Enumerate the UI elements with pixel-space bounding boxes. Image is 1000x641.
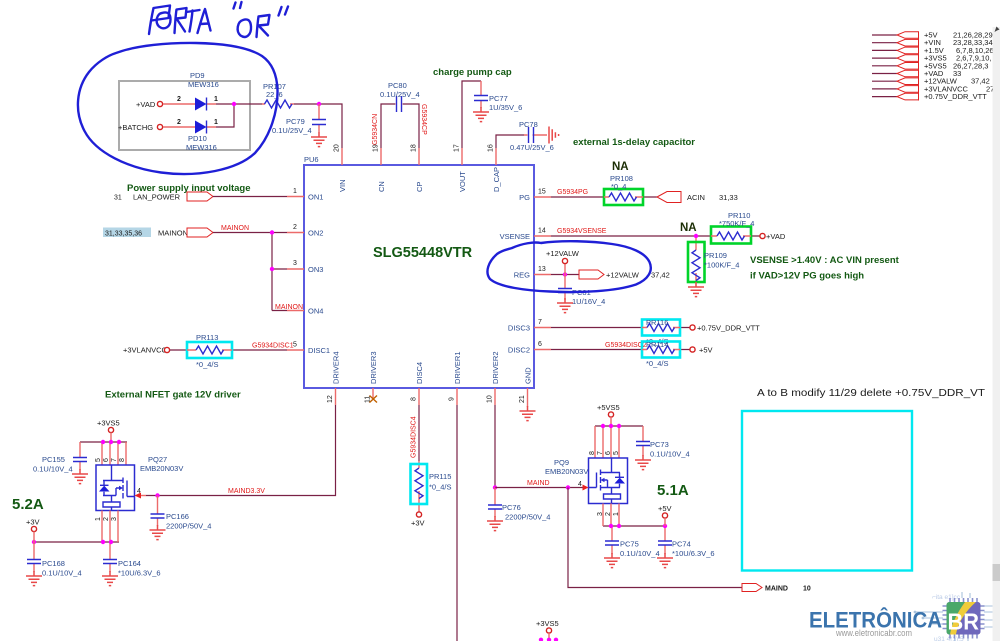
svg-text:EMB20N03V: EMB20N03V [140, 464, 183, 473]
chip left pin names [308, 193, 330, 356]
wire DRIVER2 down to MAIND [494, 405, 496, 488]
logo decorative glyphs [932, 594, 964, 641]
logo url [835, 628, 912, 638]
wire DISC1 row [170, 349, 287, 351]
svg-text:0.1U/25V_4: 0.1U/25V_4 [272, 126, 312, 135]
capacitor PC79 [272, 104, 326, 135]
svg-text:G5934CP: G5934CP [420, 104, 427, 135]
svg-text:PG: PG [519, 193, 530, 202]
svg-text:if VAD>12V PG goes high: if VAD>12V PG goes high [750, 271, 864, 282]
svg-text:CP: CP [415, 182, 424, 192]
svg-text:*750K/F_4: *750K/F_4 [719, 219, 754, 228]
svg-text:ON1: ON1 [308, 193, 323, 202]
port MAINON [187, 228, 213, 237]
logo chip BR [943, 598, 985, 639]
wire PQ27 bottom bus [34, 511, 119, 560]
node ACIN page ref [687, 193, 738, 202]
resistor PR109 in green box [688, 238, 739, 282]
svg-text:ON2: ON2 [308, 229, 323, 238]
junctions PQ27 top bus [101, 440, 121, 444]
svg-text:20: 20 [334, 144, 341, 152]
annotation Power supply input voltage [127, 183, 251, 194]
chip left pin stubs [287, 197, 304, 351]
svg-text:G5934DISC2: G5934DISC2 [605, 342, 647, 349]
net label G5934DISC1 [252, 343, 294, 350]
cyan highlight rectangle [742, 411, 912, 571]
chip top pin stubs [342, 148, 496, 165]
svg-text:*10U/6.3V_6: *10U/6.3V_6 [118, 569, 161, 578]
handdrawn ellipse around OR circuit [78, 43, 278, 174]
svg-text:22_6: 22_6 [266, 90, 283, 99]
svg-text:+12VALW: +12VALW [546, 249, 580, 258]
wire DISC2 row [551, 349, 690, 351]
svg-text:6: 6 [538, 341, 542, 348]
svg-text:MAINON: MAINON [275, 304, 303, 311]
handdrawn blob around REG [487, 241, 650, 292]
svg-text:PC164: PC164 [118, 559, 141, 568]
svg-text:0.1U/10V_4: 0.1U/10V_4 [33, 465, 73, 474]
ground below PC164 [102, 571, 118, 586]
annotation NA above PR108 [612, 161, 629, 173]
logo wordmark ELETRONICA [809, 608, 942, 633]
svg-text:6: 6 [103, 458, 110, 462]
handwritten PORTA OR [149, 2, 288, 37]
transistor PQ27 EMB20N03V [95, 455, 183, 521]
ground below PC166 [150, 525, 166, 540]
svg-text:⌐ita e1]cc: ⌐ita e1]cc [932, 594, 961, 601]
svg-text:EMB20N03V: EMB20N03V [545, 467, 588, 476]
svg-text:8: 8 [411, 397, 418, 401]
net label MAINON [221, 225, 249, 232]
wire PG row [551, 196, 657, 198]
svg-text:0.1U/10V_4: 0.1U/10V_4 [620, 549, 660, 558]
svg-text:5.1A: 5.1A [657, 482, 689, 499]
svg-text:*10U/6.3V_6: *10U/6.3V_6 [672, 549, 715, 558]
no-connect X on pin 11 [370, 396, 378, 403]
annotation external 1s-delay capacitor [573, 137, 695, 148]
svg-text:16: 16 [488, 144, 495, 152]
junctions bottom edge [539, 638, 558, 641]
svg-text:*0_4/S: *0_4/S [429, 483, 452, 492]
svg-text:+3VS5: +3VS5 [536, 619, 559, 628]
wire ON2 with branch to ON3 ON4 [213, 233, 287, 311]
node +BATCHG input [118, 123, 163, 132]
ground below PC77 [473, 107, 489, 122]
node +3VLANVCC [123, 346, 170, 355]
wire PQ9 top bus [595, 426, 643, 458]
svg-text:2200P/50V_4: 2200P/50V_4 [505, 513, 550, 522]
svg-text:17: 17 [454, 144, 461, 152]
svg-text:G5934DISC1: G5934DISC1 [252, 343, 294, 350]
wire ON1 [213, 196, 287, 198]
svg-text:12: 12 [327, 395, 334, 403]
junction VSENSE divider [694, 234, 698, 238]
ground below PC79 [311, 132, 327, 147]
svg-text:3: 3 [293, 260, 297, 267]
svg-text:MAINON: MAINON [158, 229, 188, 238]
svg-text:0.47U/25V_6: 0.47U/25V_6 [510, 143, 554, 152]
svg-text:PQ27: PQ27 [148, 455, 167, 464]
svg-text:+3VS5: +3VS5 [97, 419, 120, 428]
svg-text:G5934CN: G5934CN [372, 114, 379, 145]
resistor PR114 in cyan box [642, 340, 680, 368]
svg-text:MEW316: MEW316 [188, 80, 219, 89]
svg-text:1: 1 [293, 188, 297, 195]
node +5V above PC74 [658, 504, 672, 526]
svg-text:*0_4: *0_4 [611, 182, 626, 191]
svg-text:VSENSE: VSENSE [500, 232, 530, 241]
svg-text:0.1U/10V_4: 0.1U/10V_4 [650, 450, 690, 459]
svg-text:+5V: +5V [658, 504, 672, 513]
svg-text:PQ9: PQ9 [554, 458, 569, 467]
svg-text:1: 1 [95, 517, 102, 521]
svg-text:MAIND3.3V: MAIND3.3V [228, 488, 265, 495]
capacitor PC80 [380, 81, 420, 112]
svg-text:PC74: PC74 [672, 540, 691, 549]
svg-text:+12VALW: +12VALW [606, 271, 640, 280]
chip top pin numbers [334, 144, 495, 152]
svg-text:13: 13 [538, 266, 546, 273]
capacitor PC75 [605, 540, 660, 559]
junction MAIND at DRIVER2 [493, 485, 497, 489]
gray box around OR diodes [119, 81, 250, 150]
svg-text:PC78: PC78 [519, 120, 538, 129]
wire DISC4 down [418, 405, 420, 461]
svg-text:+0.75V_DDR_VTT: +0.75V_DDR_VTT [697, 324, 760, 333]
node +3V left [26, 518, 40, 543]
svg-text:PR109: PR109 [704, 251, 727, 260]
junction ON2 branch [270, 230, 274, 234]
svg-text:3: 3 [111, 517, 118, 521]
svg-text:VSENSE >1.40V : AC VIN present: VSENSE >1.40V : AC VIN present [750, 255, 900, 266]
port ACIN [657, 192, 681, 203]
svg-text:PR115: PR115 [429, 472, 451, 481]
power connector net names [924, 31, 999, 102]
scrollbar track [993, 27, 1000, 641]
svg-text:1U/35V_6: 1U/35V_6 [489, 103, 522, 112]
resistor PR110 in green box [711, 211, 754, 244]
svg-text:7: 7 [597, 451, 604, 455]
ground right of PC78 [549, 127, 559, 144]
svg-text:VIN: VIN [338, 179, 347, 192]
svg-text:+3VLANVCC: +3VLANVCC [123, 346, 168, 355]
svg-text:+5V: +5V [699, 346, 713, 355]
svg-text:MEW316: MEW316 [186, 143, 217, 152]
net label G5934DISC2 [605, 342, 647, 349]
svg-text:PU6: PU6 [304, 155, 319, 164]
wire diode outputs to junction [216, 104, 262, 127]
ground below PC168 [26, 571, 42, 586]
svg-text:VOUT: VOUT [458, 171, 467, 192]
svg-text:2: 2 [293, 224, 297, 231]
svg-text:DRIVER3: DRIVER3 [369, 351, 378, 384]
svg-text:PD9: PD9 [190, 71, 205, 80]
chip PU6 SLG55448VTR body [304, 155, 534, 388]
svg-text:charge pump cap: charge pump cap [433, 67, 512, 78]
node +5VS5 top of PQ9 [597, 403, 620, 426]
svg-text:2: 2 [177, 96, 181, 103]
capacitor PC74 [658, 540, 715, 559]
ground below PC74 [657, 553, 673, 568]
svg-text:*100K/F_4: *100K/F_4 [704, 261, 739, 270]
svg-text:PC168: PC168 [42, 559, 65, 568]
annotation charge pump cap [433, 67, 512, 78]
resistor PR116 in cyan box [642, 318, 680, 346]
svg-text:ACIN: ACIN [687, 193, 705, 202]
svg-text:31,33,35,36: 31,33,35,36 [105, 231, 142, 238]
wire PQ27 top bus [80, 442, 127, 465]
wire MAIND to output port [568, 488, 742, 588]
chip top pin names [338, 167, 501, 192]
svg-text:0.1U/10V_4: 0.1U/10V_4 [42, 569, 82, 578]
net label G5934VSENSE [557, 228, 607, 235]
resistor PR107 [262, 82, 294, 108]
junction PC166 tap [155, 493, 159, 497]
svg-text:4: 4 [578, 481, 582, 488]
svg-text:DISC4: DISC4 [415, 362, 424, 384]
power connector bus wires [872, 35, 897, 97]
svg-text:9: 9 [449, 397, 456, 401]
svg-text:DISC1: DISC1 [308, 346, 330, 355]
diode PD10 [163, 119, 218, 152]
svg-text:D_CAP: D_CAP [492, 167, 501, 192]
net label G5934CP [420, 104, 427, 135]
svg-text:15: 15 [538, 189, 546, 196]
svg-text:G5934PG: G5934PG [557, 189, 588, 196]
svg-text:PC166: PC166 [166, 512, 189, 521]
ground below PR109 [688, 282, 704, 297]
wire CN up [381, 104, 395, 148]
wire D_CAP up [496, 135, 524, 148]
svg-text:7: 7 [538, 319, 542, 326]
logo circuit traces [914, 592, 1000, 641]
capacitor PC78 [510, 120, 554, 152]
svg-text:External NFET gate 12V driver: External NFET gate 12V driver [105, 390, 241, 401]
annotation 5.2A [12, 496, 44, 513]
svg-text:PC76: PC76 [502, 503, 521, 512]
svg-text:www.eletronicabr.com: www.eletronicabr.com [835, 628, 912, 638]
svg-text:PC73: PC73 [650, 440, 669, 449]
wire VSENSE row [551, 235, 760, 237]
junction diode OR output [232, 102, 236, 106]
capacitor PC168 [27, 542, 82, 578]
junction at PC79 [317, 102, 321, 106]
svg-text:2: 2 [103, 517, 110, 521]
capacitor PC155 [33, 455, 87, 474]
chip bottom pin stubs [336, 388, 528, 407]
svg-text:5: 5 [613, 451, 620, 455]
net label MAINON at ON4 [275, 304, 303, 311]
capacitor PC73 [636, 440, 690, 459]
node +3VS5 left [97, 419, 120, 443]
annotation External NFET gate 12V driver [105, 390, 241, 401]
capacitor PC76 [488, 488, 550, 522]
svg-text:+5VS5: +5VS5 [597, 403, 620, 412]
wire VOUT up [462, 81, 481, 148]
svg-text:ON4: ON4 [308, 307, 323, 316]
svg-text:PC80: PC80 [388, 81, 407, 90]
svg-text:NA: NA [612, 161, 629, 173]
svg-text:10: 10 [803, 586, 811, 593]
svg-text:G5934VSENSE: G5934VSENSE [557, 228, 607, 235]
port +12VALW out [579, 270, 670, 280]
node +VAD right [760, 232, 786, 241]
annotation 5.1A [657, 482, 689, 499]
svg-text:MAINON: MAINON [221, 225, 249, 232]
node MAINON page ref [103, 228, 188, 238]
svg-text:A to B modify 11/29 delete +0: A to B modify 11/29 delete +0.75V_DDR_VT [757, 387, 986, 399]
svg-text:+0.75V_DDR_VTT: +0.75V_DDR_VTT [924, 92, 987, 101]
wire DRIVER1 down [456, 405, 458, 641]
wire PR107 to VIN [294, 104, 342, 148]
svg-text:PR116: PR116 [646, 318, 668, 327]
svg-text:1: 1 [214, 96, 218, 103]
svg-text:BR: BR [948, 609, 980, 635]
svg-text:MAIND: MAIND [765, 586, 788, 593]
wire REG row [551, 274, 579, 276]
node +3V below PR115 [411, 512, 425, 528]
ground below PC73 [635, 455, 651, 470]
node +3VS5 bottom stub [536, 619, 559, 639]
svg-text:5: 5 [95, 458, 102, 462]
wire PQ9 bottom bus [603, 504, 665, 541]
svg-text:NA: NA [680, 222, 697, 234]
svg-text:+3V: +3V [26, 518, 40, 527]
svg-text:MAIND: MAIND [527, 480, 550, 487]
svg-text:PR114: PR114 [646, 340, 668, 349]
svg-text:external 1s-delay capacitor: external 1s-delay capacitor [573, 137, 695, 148]
svg-text:SLG55448VTR: SLG55448VTR [373, 245, 473, 261]
svg-text:G5934DISC4: G5934DISC4 [411, 416, 418, 458]
ground below PC155 [72, 469, 88, 484]
net label MAIND3.3V [228, 488, 265, 495]
svg-text:DRIVER1: DRIVER1 [453, 351, 462, 384]
svg-text:7: 7 [111, 458, 118, 462]
wire DISC3 row [551, 327, 690, 329]
svg-text:PR113: PR113 [196, 333, 218, 342]
svg-text:18: 18 [411, 144, 418, 152]
svg-text:37,42: 37,42 [651, 271, 670, 280]
svg-text:DISC3: DISC3 [508, 324, 530, 333]
chip right pin stubs [534, 197, 551, 350]
net label G5934DISC4 [411, 416, 418, 458]
scrollbar thumb [993, 564, 1000, 581]
node LAN_POWER page ref [114, 193, 181, 202]
node +5V right [690, 346, 713, 355]
junction ON3 branch [270, 267, 274, 271]
svg-text:+VAD: +VAD [136, 100, 156, 109]
svg-text:+VAD: +VAD [766, 232, 786, 241]
svg-text:+3V: +3V [411, 519, 425, 528]
svg-text:CN: CN [377, 181, 386, 192]
svg-text:1: 1 [214, 119, 218, 126]
svg-text:DRIVER4: DRIVER4 [332, 351, 341, 384]
svg-text:2: 2 [177, 119, 181, 126]
junctions PQ9 bottom bus [609, 524, 667, 528]
net label G5934PG [557, 189, 588, 196]
svg-text:REG: REG [514, 271, 530, 280]
net label MAIND [527, 480, 550, 487]
ground below PC76 [487, 516, 503, 531]
junctions PQ27 bottom bus [32, 540, 113, 544]
wire CP up [403, 104, 419, 148]
ground below PC75 [604, 553, 620, 568]
annotation VSENSE threshold [750, 255, 900, 282]
node +0.75V_DDR_VTT [690, 324, 760, 333]
power connector arrow symbols [897, 32, 919, 101]
svg-text:*0_4/S: *0_4/S [646, 359, 669, 368]
wire DRIVER4 down to PQ27 gate [146, 405, 336, 496]
mouse cursor [995, 27, 1000, 33]
svg-text:14: 14 [538, 228, 546, 235]
chip bottom pin numbers [327, 395, 526, 403]
annotation NA at PR110 [680, 222, 697, 234]
svg-text:8: 8 [119, 458, 126, 462]
junction MAIND branch [566, 485, 570, 489]
svg-text:GND: GND [524, 367, 533, 384]
diode PD9 [163, 71, 219, 111]
svg-text:DRIVER2: DRIVER2 [491, 351, 500, 384]
svg-text:8: 8 [589, 451, 596, 455]
capacitor PC166 [151, 496, 212, 531]
svg-text:PC77: PC77 [489, 94, 508, 103]
transistor PQ9 EMB20N03V [545, 451, 628, 516]
capacitor PC77 [474, 81, 522, 112]
chip left pin numbers [293, 188, 297, 349]
svg-text:LAN_POWER: LAN_POWER [133, 193, 181, 202]
svg-text:31,33: 31,33 [719, 193, 738, 202]
wire MAIND row [495, 487, 583, 489]
node +12VALW power [546, 249, 580, 275]
junctions PQ9 top bus [601, 424, 621, 428]
svg-text:5.2A: 5.2A [12, 496, 44, 513]
svg-text:+BATCHG: +BATCHG [118, 123, 153, 132]
svg-text:31: 31 [114, 195, 122, 202]
ground at GND pin 21 [520, 406, 536, 421]
junction REG [563, 272, 567, 276]
capacitor PC81 [558, 275, 605, 307]
chip bottom pin names [332, 351, 533, 384]
svg-text:ON3: ON3 [308, 265, 323, 274]
resistor PR113 in cyan box [187, 333, 232, 369]
svg-text:PC155: PC155 [42, 455, 65, 464]
chip right pin names [500, 193, 531, 355]
capacitor PC164 [103, 559, 161, 578]
net label G5934CN [372, 114, 379, 145]
port MAIND out [742, 584, 811, 593]
node +VAD input [136, 100, 163, 109]
revision note text [757, 387, 986, 399]
port LAN_POWER [187, 192, 213, 201]
resistor PR115 in cyan box [411, 461, 452, 512]
svg-text:PC75: PC75 [620, 540, 639, 549]
svg-text:PC79: PC79 [286, 117, 305, 126]
svg-text:*0_4/S: *0_4/S [196, 360, 219, 369]
ground below PC81 [557, 298, 573, 313]
svg-text:10: 10 [487, 395, 494, 403]
svg-text:2200P/50V_4: 2200P/50V_4 [166, 522, 211, 531]
svg-text:1U/16V_4: 1U/16V_4 [572, 297, 605, 306]
svg-text:6: 6 [605, 451, 612, 455]
svg-text:DISC2: DISC2 [508, 346, 530, 355]
resistor PR108 in green box [604, 174, 643, 205]
svg-text:21: 21 [519, 395, 526, 403]
chip right pin numbers [538, 189, 546, 349]
svg-text:0.1U/25V_4: 0.1U/25V_4 [380, 90, 420, 99]
svg-text:PD10: PD10 [188, 134, 207, 143]
